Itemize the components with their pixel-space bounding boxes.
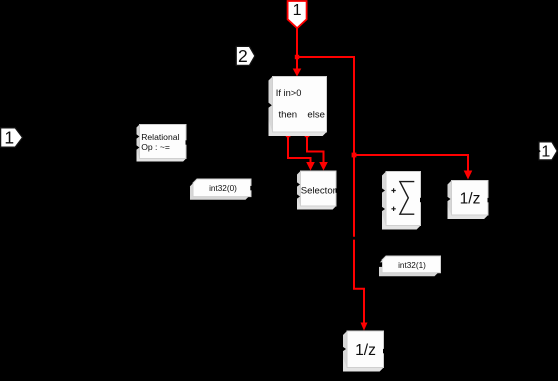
Relational Op output stub xyxy=(186,140,190,144)
int32(0) constant tag xyxy=(190,179,251,200)
int32(1) output stub (left) xyxy=(379,262,383,267)
Inport 1 (left, points right) xyxy=(1,128,23,148)
svg-text:1/z: 1/z xyxy=(355,342,376,359)
svg-text:int32(1): int32(1) xyxy=(398,261,426,270)
Sum input notches xyxy=(382,188,386,193)
Selector input notches xyxy=(297,182,301,187)
svg-text:else: else xyxy=(307,109,325,120)
node junction at (354,155) xyxy=(352,153,357,158)
Inport 2 (points right) xyxy=(236,46,255,66)
If block input notch xyxy=(268,102,272,108)
Unit Delay (bottom) output stub xyxy=(383,349,387,353)
int32(1) constant tag xyxy=(379,256,441,276)
Sum block U (sigma) xyxy=(382,172,421,230)
Unit Delay (right) output stub xyxy=(488,198,492,202)
Sum output stub xyxy=(420,198,424,202)
wire from trunk to Unit Delay (right 1/z) xyxy=(354,155,472,180)
Relational Op block xyxy=(137,125,187,162)
Outport 1 (right, points right) xyxy=(538,142,558,161)
svg-text:int32(0): int32(0) xyxy=(209,184,237,193)
node branch junction at (297,57) xyxy=(295,55,299,59)
svg-text:If in>0: If in>0 xyxy=(276,88,302,98)
wire If else-port to Selector xyxy=(305,133,328,171)
Unit Delay (right) input notch xyxy=(447,197,451,202)
svg-text:Op : ~=: Op : ~= xyxy=(141,142,170,152)
Unit Delay (bottom) input notch xyxy=(343,347,347,352)
Selector output stub xyxy=(336,188,340,192)
If block (If in>0 / then else) xyxy=(269,77,327,137)
wire If then-port to Selector xyxy=(286,133,315,171)
Selector block xyxy=(297,171,337,210)
svg-text:1: 1 xyxy=(541,144,550,161)
svg-text:then: then xyxy=(278,109,297,120)
Relational Op input notches xyxy=(136,134,139,139)
svg-text:Selector: Selector xyxy=(301,186,337,197)
Unit Delay 1/z (bottom) xyxy=(343,331,384,372)
svg-text:2: 2 xyxy=(238,46,248,66)
Inport 1 (top, points down) xyxy=(288,1,307,28)
svg-text:Relational: Relational xyxy=(141,132,179,142)
wire branch right then down (main feedback trunk) xyxy=(297,57,368,331)
svg-text:1: 1 xyxy=(4,128,14,148)
wire from Inport 1 down to If block xyxy=(293,27,302,77)
Unit Delay 1/z (right) xyxy=(448,181,489,220)
svg-text:1: 1 xyxy=(293,2,302,19)
svg-text:1/z: 1/z xyxy=(460,191,481,208)
int32(0) output stub xyxy=(250,186,253,190)
